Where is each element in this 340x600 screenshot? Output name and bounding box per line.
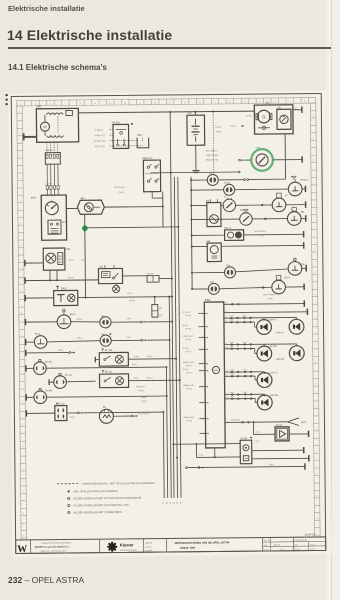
svg-text:KL4b: KL4b	[243, 342, 247, 344]
wire row y297 left segment	[25, 297, 53, 299]
svg-text:A: 1: A: 1	[265, 548, 268, 551]
svg-text:W: W	[17, 544, 27, 555]
ammeter AM box	[207, 243, 221, 262]
gauge KT	[191, 204, 206, 206]
svg-text:ANTM: ANTM	[240, 437, 247, 440]
wire ANTM to terminal 2	[252, 457, 309, 460]
wire BA-S to BA lamp	[71, 320, 100, 323]
svg-text:BV-RA: BV-RA	[105, 349, 113, 352]
svg-text:6: 6	[314, 294, 315, 296]
annotation green circle	[251, 149, 273, 171]
warning lamp BV	[100, 335, 111, 346]
sensor BA-S circle	[57, 315, 71, 329]
wire left to BA-S	[25, 321, 57, 323]
switch-lamp unit BV-LA box	[99, 374, 128, 388]
svg-text:KL4b: KL4b	[229, 315, 233, 317]
svg-text:KSDAU-P: KSDAU-P	[136, 385, 146, 388]
svg-text:BV-LA: BV-LA	[105, 371, 112, 374]
wire KT to sender	[236, 204, 273, 206]
generator pulley symbol	[258, 127, 270, 129]
svg-text:KL4b: KL4b	[230, 369, 234, 371]
warning lamp RVN	[191, 189, 223, 191]
wire to AM	[192, 245, 207, 247]
svg-text:ODE/CTS: ODE/CTS	[142, 157, 153, 160]
ignition coil BO	[77, 200, 104, 214]
warning lamp BA	[100, 317, 111, 328]
svg-text:mt 9/94: mt 9/94	[146, 549, 152, 552]
svg-text:KL4b: KL4b	[242, 315, 246, 317]
distributor cap circle	[45, 202, 58, 215]
main feed rail wire	[78, 111, 254, 113]
speaker LSP-RA	[257, 395, 272, 410]
wire PC-LV to bus	[67, 412, 77, 414]
revision table	[263, 541, 294, 543]
svg-text:2: 2	[21, 267, 22, 269]
svg-text:G: G	[262, 114, 265, 119]
svg-text:KL4b: KL4b	[230, 374, 234, 376]
svg-text:DKV: DKV	[61, 286, 67, 290]
svg-text:3: 3	[316, 495, 317, 497]
svg-text:TEL NR: TEL NR	[264, 540, 271, 542]
svg-text:KA4-2: KA4-2	[127, 292, 132, 295]
generator DY box	[254, 105, 293, 134]
wire ZZ to connector	[113, 415, 131, 417]
ground terminal battery	[192, 170, 199, 172]
svg-text:4: 4	[21, 357, 22, 359]
svg-text:PN: PN	[226, 264, 230, 267]
sensor RVN-S	[288, 182, 302, 196]
svg-text:(12-B CT-A): (12-B CT-A)	[138, 412, 149, 415]
svg-text:STV: STV	[31, 196, 37, 200]
filing table	[294, 540, 326, 542]
svg-text:DY: DY	[266, 101, 270, 105]
connector left of clock	[239, 159, 241, 161]
wire bus to ANTM lower	[197, 456, 241, 458]
gauge BN	[191, 218, 239, 220]
svg-text:[T-AN-4] (1): [T-AN-4] (1)	[95, 140, 106, 143]
svg-text:BV: BV	[102, 333, 106, 336]
svg-text:8: 8	[21, 312, 22, 314]
svg-text:4-WA-4 (1): 4-WA-4 (1)	[95, 134, 105, 137]
ignition leads SM to XS-AT dashed	[46, 142, 48, 152]
svg-text:5: 5	[23, 513, 24, 515]
svg-text:(PA-): (PA-)	[59, 349, 64, 352]
svg-text:(3-P5): (3-P5)	[259, 235, 265, 237]
svg-text:KSB-4 (2-A4): KSB-4 (2-A4)	[206, 154, 219, 157]
parking light PC-RV	[34, 362, 47, 375]
indicator lamp under SA	[115, 284, 117, 286]
svg-text:1: 1	[21, 334, 22, 336]
svg-text:1: 1	[207, 313, 208, 315]
svg-text:6: 6	[20, 223, 21, 225]
registration dots page edge	[6, 94, 8, 96]
wire PN to sender	[235, 269, 288, 272]
battery AC box	[187, 115, 205, 145]
connector XS-AT box	[45, 153, 60, 165]
starter motor M circle	[40, 122, 49, 131]
connector arrow BA row	[141, 321, 143, 323]
sensor PN-S	[288, 262, 302, 276]
svg-text:6: 6	[208, 419, 209, 421]
RAD bottom stub	[214, 448, 216, 457]
svg-text:(B05)LA-B3): (B05)LA-B3)	[183, 416, 194, 419]
antenna coax wire	[225, 421, 287, 424]
RAD speaker feed RA	[225, 393, 265, 395]
svg-text:4: 4	[226, 316, 227, 318]
svg-text:KL4b: KL4b	[230, 392, 234, 394]
svg-text:BN: BN	[301, 212, 305, 214]
wire BV-LA to bus	[129, 379, 180, 382]
svg-text:(P-A2): (P-A2)	[186, 371, 192, 374]
svg-text:SM: SM	[36, 104, 41, 108]
svg-text:6: 6	[22, 446, 23, 448]
wire RVN-S to terminal	[302, 188, 305, 190]
svg-text:M: M	[44, 125, 47, 129]
RAD tuning circle	[212, 366, 219, 373]
sensor BV-S circle	[34, 336, 47, 349]
wire to BN-L2	[192, 234, 225, 236]
svg-text:8: 8	[208, 433, 209, 435]
wire row y227 to bus	[85, 226, 178, 229]
wire PN-S to terminal	[302, 267, 306, 269]
svg-text:AC: AC	[188, 111, 192, 115]
svg-text:mm 1: mm 1	[280, 549, 284, 551]
svg-text:(P-A2): (P-A2)	[182, 324, 188, 327]
wire PC-LA to BV-LA	[66, 380, 95, 383]
svg-text:8: 8	[313, 160, 314, 162]
wire battery to rail	[194, 112, 196, 115]
frame top ruler band	[17, 98, 316, 101]
svg-text:2: 2	[207, 387, 208, 389]
antenna amplifier ANTV box	[275, 427, 289, 441]
svg-text:(JAL): (JAL)	[269, 463, 274, 466]
relay SM-BD box	[113, 124, 129, 148]
wire BD-S to terminal	[285, 286, 304, 288]
svg-text:B/W 15: B/W 15	[146, 543, 152, 545]
svg-text:4: 4	[316, 428, 317, 430]
svg-text:TN-4 [7P-4]: TN-4 [7P-4]	[206, 150, 217, 152]
twin lamp unit BN-L2 box	[225, 230, 244, 241]
svg-text:technische boeken: technische boeken	[120, 549, 137, 552]
svg-text:9: 9	[20, 245, 21, 247]
svg-text:KL30: KL30	[255, 441, 259, 443]
warning lamp LZ	[191, 179, 207, 181]
antenna ANT symbol	[287, 418, 299, 422]
svg-text:(T-A2: (T-A2	[216, 126, 222, 129]
svg-text:: WEL OP ALLE MODELLEN AANWEZI: : WEL OP ALLE MODELLEN AANWEZIG	[72, 490, 118, 493]
svg-text:9: 9	[227, 397, 228, 399]
svg-text:5: 5	[315, 361, 316, 363]
speaker LSP-LV right	[289, 319, 304, 334]
terminal bar battery cable	[23, 133, 25, 140]
SM internal dashed link	[57, 117, 59, 133]
wire left to BV-S	[26, 341, 35, 343]
bus junction nodes	[175, 358, 177, 360]
svg-text:9: 9	[23, 469, 24, 471]
wire BO to junction	[104, 206, 162, 209]
svg-text:0: 0	[316, 473, 317, 475]
parking light PC-LA	[54, 376, 67, 389]
frame right ruler band	[310, 103, 314, 537]
Kluwer logo flower	[108, 546, 116, 548]
svg-text:6: 6	[226, 321, 227, 323]
svg-text:Postbus 23 - 7400 GA Deventer: Postbus 23 - 7400 GA Deventer	[40, 550, 67, 553]
wire DY down to clock row	[284, 134, 286, 179]
wire PC-RA to bus	[47, 396, 167, 397]
svg-text:SET:: SET:	[295, 545, 299, 547]
svg-text:4-BA-4: 4-BA-4	[76, 318, 82, 321]
svg-text:3: 3	[314, 272, 315, 274]
warning lamp OD	[192, 288, 208, 290]
svg-text:BN-L2: BN-L2	[225, 227, 232, 230]
svg-text:PC-RV: PC-RV	[45, 362, 53, 364]
svg-text:1 2 3 4: 1 2 3 4	[45, 183, 52, 185]
svg-text:2: 2	[315, 339, 316, 341]
number plate light PC-LV box	[55, 406, 67, 421]
svg-text:7-B4): 7-B4)	[81, 260, 86, 262]
svg-text:0: 0	[20, 178, 21, 180]
svg-text:7: 7	[316, 451, 317, 453]
svg-text:5: 5	[207, 337, 208, 339]
svg-text:7: 7	[19, 156, 20, 158]
svg-text:(3-P6): (3-P6)	[129, 300, 135, 302]
svg-text:(B05)LA-A3): (B05)LA-A3)	[183, 361, 194, 364]
page crease line	[331, 0, 332, 600]
svg-text:PC-LA: PC-LA	[65, 374, 72, 377]
svg-text:BONER en van der VRIJST b.v.: BONER en van der VRIJST b.v.	[35, 545, 70, 548]
wire RVN to sender	[235, 188, 289, 191]
svg-text:RAD: RAD	[205, 298, 211, 302]
SM field winding bottom	[47, 136, 64, 138]
svg-text:ADU: ADU	[137, 134, 143, 137]
svg-text:9: 9	[207, 364, 208, 366]
wire LZ to DY branch	[218, 179, 243, 181]
generator G circle	[258, 110, 271, 123]
svg-text:WERKINGSSCHEMA VAN DE OPEL: WERKINGSSCHEMA VAN DE OPEL ASTRA	[175, 540, 230, 545]
bus wire C	[169, 297, 171, 498]
svg-text:LSP-RV: LSP-RV	[269, 346, 278, 348]
svg-text:KL4b: KL4b	[134, 356, 138, 358]
page margin light strip right	[326, 0, 340, 600]
relay SA box	[98, 268, 122, 283]
svg-text:0: 0	[22, 401, 23, 403]
bus wire B	[166, 367, 167, 498]
svg-text:ZE ZA: ZE ZA	[147, 272, 154, 275]
title block strip	[16, 537, 326, 554]
light switch DKV box	[54, 290, 78, 305]
battery cable wire to SM	[24, 136, 37, 138]
svg-text:8: 8	[226, 343, 227, 345]
antenna motor ANTM box	[240, 440, 252, 464]
svg-text:KL4b: KL4b	[230, 396, 234, 398]
bus wire E	[174, 177, 177, 498]
annotation green dot	[82, 225, 88, 231]
wire row y279	[25, 279, 98, 282]
wire row y297 right segment	[78, 296, 172, 299]
heading rule	[8, 47, 331, 49]
wire ZEZA to bus D	[159, 277, 172, 279]
module ODE/CTS box	[143, 160, 160, 192]
svg-text:AM: AM	[206, 240, 210, 243]
wire DY to terminal	[293, 109, 302, 111]
wire KT sender to terminal	[286, 204, 306, 206]
page footer	[8, 575, 84, 585]
module MC box in STV	[48, 220, 61, 234]
svg-text:7: 7	[22, 379, 23, 381]
svg-text:(P-A2): (P-A2)	[186, 387, 192, 390]
ignition leads XS-AT to plugs	[46, 164, 48, 185]
radio RAD box	[204, 302, 225, 448]
terminal bar BA-S row	[24, 319, 26, 325]
svg-text:K5L13: K5L13	[147, 356, 152, 358]
wire BN sender to terminal	[301, 217, 306, 219]
svg-text:(A2-): (A2-)	[70, 416, 75, 419]
junction node rail/battery	[194, 111, 196, 113]
svg-text:(P-A2): (P-A2)	[186, 338, 192, 341]
svg-text:OD: OD	[210, 281, 214, 284]
svg-text:0: 0	[314, 250, 315, 252]
wire row y468	[186, 467, 188, 469]
starter motor SM box	[36, 108, 78, 142]
svg-text:(A4-): (A4-)	[127, 336, 132, 339]
svg-text:ANT: ANT	[301, 421, 307, 424]
RAD speaker feed RV	[224, 343, 296, 346]
ground bar BV-RA	[94, 357, 96, 363]
svg-text:(P-A2): (P-A2)	[185, 314, 191, 317]
svg-text:BA: BA	[101, 315, 105, 318]
svg-text:(P-A2): (P-A2)	[186, 327, 192, 330]
svg-text:BEL-91: BEL-91	[274, 545, 282, 547]
cigar lighter ZZ circle	[99, 409, 113, 423]
svg-text:: ALLEEN MODELLEN MET (COMBI): : ALLEEN MODELLEN MET (COMBI) BEDR.	[72, 511, 122, 515]
svg-text:(P-A2): (P-A2)	[186, 350, 192, 353]
svg-text:1: 1	[313, 183, 314, 185]
wire clock to terminal	[273, 159, 302, 161]
dashed link wires to relays	[110, 129, 113, 131]
wire STV to BO	[66, 207, 77, 209]
wire ANTV to terminal	[289, 433, 308, 435]
svg-text:(+(OB-B)-(: (+(OB-B)-(	[230, 420, 240, 422]
legend line 4	[68, 504, 70, 506]
svg-text:4: 4	[207, 403, 208, 405]
distributor STV box	[41, 195, 66, 240]
svg-text:LSP-LV: LSP-LV	[268, 320, 276, 322]
svg-text:(D-A2): (D-A2)	[138, 389, 144, 392]
svg-text:7: 7	[314, 227, 315, 229]
vertical wire ODE junction	[162, 192, 164, 227]
svg-text:1: 1	[227, 421, 228, 423]
svg-text:(3-P5): (3-P5)	[267, 298, 273, 300]
svg-text:KL4b: KL4b	[243, 392, 247, 394]
svg-text:303-F04: 303-F04	[305, 533, 316, 537]
svg-text:PC-LV: PC-LV	[58, 403, 65, 405]
ignition lock KO box	[43, 248, 65, 270]
wire ANTM to terminal 1	[252, 449, 304, 452]
frame left ruler band	[17, 100, 21, 539]
svg-text:1: 1	[19, 111, 20, 113]
regulator SR box	[277, 109, 291, 129]
svg-text:5: 5	[313, 138, 314, 140]
clock gauge inside green circle	[256, 154, 268, 166]
RAD speaker feed LA	[224, 371, 264, 373]
svg-text:5: 5	[21, 290, 22, 292]
svg-text:(B-A2: (B-A2	[69, 259, 74, 262]
svg-text:KSF [A-A2]: KSF [A-A2]	[114, 186, 124, 189]
svg-text:(B05)LA-A3): (B05)LA-A3)	[183, 384, 194, 387]
wire OD to sender	[219, 287, 272, 289]
svg-text:PC-RA: PC-RA	[45, 389, 53, 392]
svg-text:A2:: A2:	[264, 544, 267, 547]
svg-text:11: 11	[207, 371, 209, 373]
svg-text:4: 4	[19, 133, 20, 135]
svg-text:(P-A4): (P-A4)	[183, 347, 189, 350]
svg-text:T-P4): T-P4)	[216, 131, 221, 133]
wire row y351 with arrow	[25, 350, 27, 356]
svg-text:4-MC-4 (1): 4-MC-4 (1)	[95, 146, 105, 148]
svg-text:LSP-LA: LSP-LA	[269, 371, 277, 374]
svg-text:BO: BO	[81, 196, 85, 200]
svg-text:LSP-LV: LSP-LV	[276, 332, 284, 334]
wire BV-RA to bus	[128, 358, 176, 360]
svg-text:BD-S: BD-S	[285, 277, 291, 279]
wire BV lamp to bus	[111, 339, 140, 341]
svg-text:7: 7	[207, 349, 208, 351]
svg-text:6: 6	[317, 518, 318, 520]
svg-text:5: 5	[226, 375, 227, 377]
legend dashed sample	[57, 483, 79, 485]
svg-text:SR: SR	[277, 106, 281, 109]
svg-text:KL4b: KL4b	[243, 369, 247, 371]
chapter heading	[7, 27, 172, 43]
wire AM to terminal	[221, 244, 303, 247]
terminal bar KO row	[24, 260, 26, 266]
svg-text:4-BV-4: 4-BV-4	[77, 338, 83, 340]
warning lamp PN	[192, 271, 224, 273]
svg-text:BA-S: BA-S	[70, 313, 76, 316]
wire BV-S to BV lamp	[47, 341, 100, 342]
svg-text:B 2-W: B 2-W	[310, 544, 315, 546]
svg-text:(A03): (A03)	[132, 363, 137, 366]
svg-text:MC: MC	[62, 222, 66, 224]
wire bus to ANTM upper	[173, 443, 240, 446]
svg-text:(D-L2): (D-L2)	[141, 401, 147, 403]
svg-text:7: 7	[226, 393, 227, 395]
parking light PC-RA	[34, 391, 47, 404]
battery cell symbol	[194, 119, 196, 125]
svg-text:[7-A2] (1): [7-A2] (1)	[95, 129, 104, 132]
svg-text:(A4-): (A4-)	[126, 317, 131, 320]
terminal bar clock row	[301, 156, 303, 162]
svg-text:2: 2	[313, 115, 314, 117]
fuel gauge unit SB box	[207, 202, 221, 226]
svg-text:K5L14: K5L14	[147, 377, 152, 379]
wire row y173	[150, 171, 237, 174]
svg-text:(P-A2): (P-A2)	[186, 419, 192, 422]
RAD left pin wires	[198, 312, 204, 314]
svg-text:(7-A4): (7-A4)	[118, 191, 124, 194]
wire BA lamp to bus	[111, 321, 140, 323]
switch-lamp unit BV-RA box	[99, 352, 128, 366]
svg-text:(A05)(LA-A3: (A05)(LA-A3	[183, 335, 194, 338]
svg-text:ANTV: ANTV	[276, 424, 283, 427]
svg-text:9: 9	[315, 317, 316, 319]
SM solenoid contact box	[66, 110, 73, 115]
svg-text:8: 8	[315, 384, 316, 386]
svg-text:KL4b: KL4b	[229, 320, 233, 322]
svg-text:KL4b: KL4b	[134, 378, 138, 380]
wire SA to ZE ZA	[123, 275, 147, 277]
svg-text:Uitgeverij TECHNISCHE BOEKEN: Uitgeverij TECHNISCHE BOEKEN	[42, 541, 72, 544]
